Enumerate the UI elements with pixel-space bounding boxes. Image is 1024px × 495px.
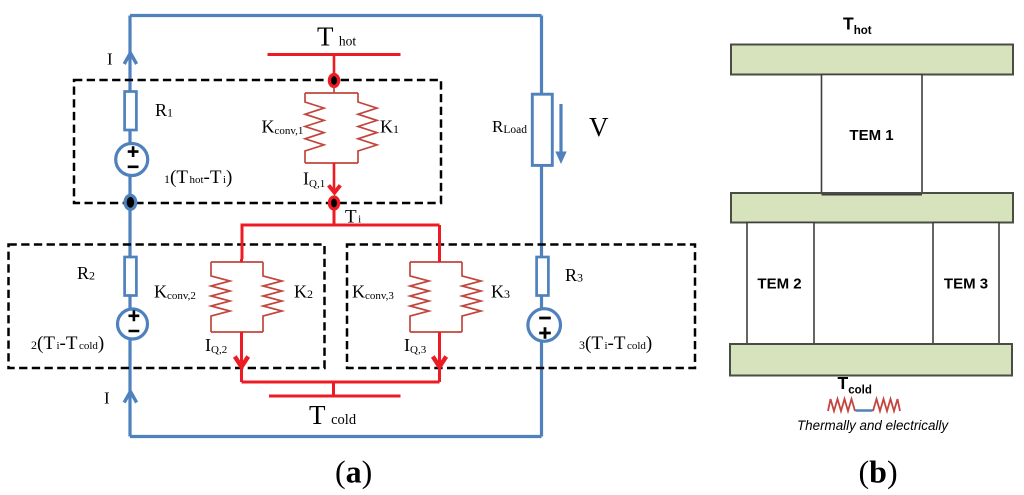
svg-text:K1: K1 [380,117,399,137]
svg-text:T hot: T hot [317,21,356,51]
wire bottom red bus [242,382,440,396]
svg-text:Thermally and electrically: Thermally and electrically [797,418,949,433]
voltage source V2 (+ top) [118,309,148,339]
svg-text:R2: R2 [77,263,95,283]
wire Ti branch: vertical + horizontal + two drops [241,210,440,260]
svg-text:1(Thot-Ti): 1(Thot-Ti) [164,167,232,188]
hot plate (panel b) [731,45,1013,75]
svg-text:T cold: T cold [309,400,357,430]
resistor glyph (thermally and electrically coupled) [828,399,855,411]
current arrow I (top left, up) [124,53,136,64]
svg-text:Kconv,1: Kconv,1 [262,117,304,138]
TEM 1 block [822,75,923,194]
svg-text:Thot: Thot [843,13,872,37]
voltage arrow V (down) [559,104,562,152]
voltage source V3 (- top) [528,309,561,342]
resistor R3 [537,257,549,296]
middle plate (panel b) [731,193,1013,223]
wire blue link in resistor glyph [856,409,873,411]
svg-text:TEM 2: TEM 2 [757,276,801,293]
svg-text:IQ,3: IQ,3 [404,335,427,356]
node Ti [329,197,338,209]
wire Thot to node [333,55,336,76]
svg-text:Kconv,2: Kconv,2 [154,282,196,303]
wire blue loop: top horizontal [130,14,542,17]
dashed box 3 (TEM3 model) [347,245,695,369]
svg-text:R1: R1 [155,100,173,120]
node Thot bus bar [268,53,401,56]
resistor glyph right half [873,399,900,411]
svg-text:(b): (b) [859,454,898,490]
svg-text:Kconv,3: Kconv,3 [352,282,394,303]
svg-text:2(Ti-Tcold): 2(Ti-Tcold) [31,333,104,354]
svg-text:IQ,1: IQ,1 [303,169,325,191]
resistor R2 [125,257,137,296]
svg-text:(a): (a) [335,454,372,490]
thermal resistor pair Kconv,1 / K1 [305,93,377,163]
svg-text:IQ,2: IQ,2 [205,335,227,356]
svg-text:V: V [589,112,609,142]
voltage source V1 (Seebeck, + top) [116,144,148,176]
thermal resistor pair Kconv,3 / K3 [410,262,481,332]
wire blue loop: right vertical [540,16,543,437]
dashed box 2 (TEM2 model) [9,245,325,369]
node Tcold bus bar [269,395,401,398]
svg-text:I: I [107,50,113,69]
TEM 3 block [933,223,999,345]
cold plate (panel b) [730,344,1012,376]
svg-text:R3: R3 [565,265,583,285]
svg-text:TEM 1: TEM 1 [849,127,893,144]
TEM 1 bottom edge over middle plate [822,194,923,196]
svg-text:K2: K2 [294,282,313,302]
svg-text:K3: K3 [491,282,510,302]
dashed box 1 (TEM1 model) [74,80,441,203]
wire node to K combo 1 [333,86,335,93]
svg-text:3(Ti-Tcold): 3(Ti-Tcold) [579,333,652,354]
wire IQ2 down with arrow [240,332,243,382]
TEM 2 block [747,223,814,345]
thermal resistor pair Kconv,2 / K2 [211,262,282,332]
wire blue loop: bottom horizontal [130,435,542,438]
node on box1 bottom (blue) [125,195,136,209]
wire blue loop: left vertical [128,16,131,437]
wire IQ3 down with arrow [438,332,441,382]
wire IQ1 with arrow to node Ti [333,163,336,192]
resistor RLoad [532,94,552,165]
resistor R1 [125,92,137,131]
svg-text:TEM 3: TEM 3 [944,276,988,293]
wire drop into combo2 [240,259,243,262]
node at Thot junction [329,75,338,87]
current arrow I (bottom left, up) [124,392,136,403]
svg-text:RLoad: RLoad [492,117,527,136]
svg-text:I: I [104,389,110,408]
wire drop into combo3 [438,259,441,262]
